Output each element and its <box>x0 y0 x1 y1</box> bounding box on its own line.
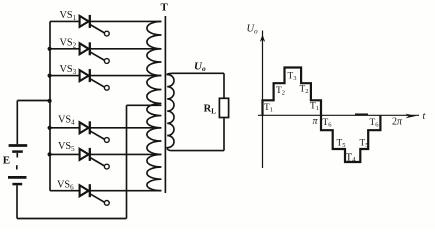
battery E dotted continuation <box>16 165 18 169</box>
node junction battery tap <box>48 99 52 103</box>
bottom return rail <box>17 218 127 220</box>
thyristor VS2 <box>50 37 161 63</box>
node junction VS4 <box>48 126 52 130</box>
battery E top wire <box>17 100 50 102</box>
battery E cell2 positive plate <box>8 176 27 179</box>
transformer T core <box>164 16 166 193</box>
svg-text:t: t <box>423 111 426 122</box>
axis horizontal arrowhead <box>406 114 417 119</box>
axis vertical U0 <box>262 31 264 169</box>
svg-text:E: E <box>3 155 10 167</box>
node junction VS2 <box>48 47 52 51</box>
thyristor VS4 <box>50 115 161 143</box>
svg-text:2π: 2π <box>392 117 403 128</box>
thyristor VS6 <box>50 179 161 205</box>
transformer T secondary winding <box>167 73 174 150</box>
battery E bottom lead <box>16 185 18 218</box>
anode rail (left vertical bus) <box>49 21 51 190</box>
node junction VS5 <box>48 152 52 156</box>
load right lead upper <box>223 73 225 98</box>
svg-text:T: T <box>161 2 169 14</box>
resistor RL <box>219 98 228 117</box>
thyristor VS3 <box>50 64 161 90</box>
staircase waveform <box>263 68 381 163</box>
axis horizontal t <box>258 114 419 116</box>
center-tap rail <box>126 105 128 218</box>
battery E inter-cell stub <box>16 153 18 158</box>
thyristor VS1 <box>50 10 161 36</box>
secondary bottom wire <box>172 150 224 152</box>
thyristor VS5 <box>50 141 161 169</box>
battery E cell2 negative plate <box>12 183 22 186</box>
tick mark above axis <box>355 113 368 115</box>
load right lead lower <box>223 118 225 151</box>
battery E cell1 positive plate <box>9 144 28 147</box>
battery E cell1 negative plate <box>12 150 23 153</box>
axis vertical arrowhead <box>260 35 265 43</box>
secondary top wire <box>172 72 224 74</box>
transformer T primary winding <box>147 21 162 190</box>
node junction VS3 <box>48 74 52 78</box>
center-tap wire <box>127 104 162 106</box>
battery E lead down <box>16 101 18 145</box>
